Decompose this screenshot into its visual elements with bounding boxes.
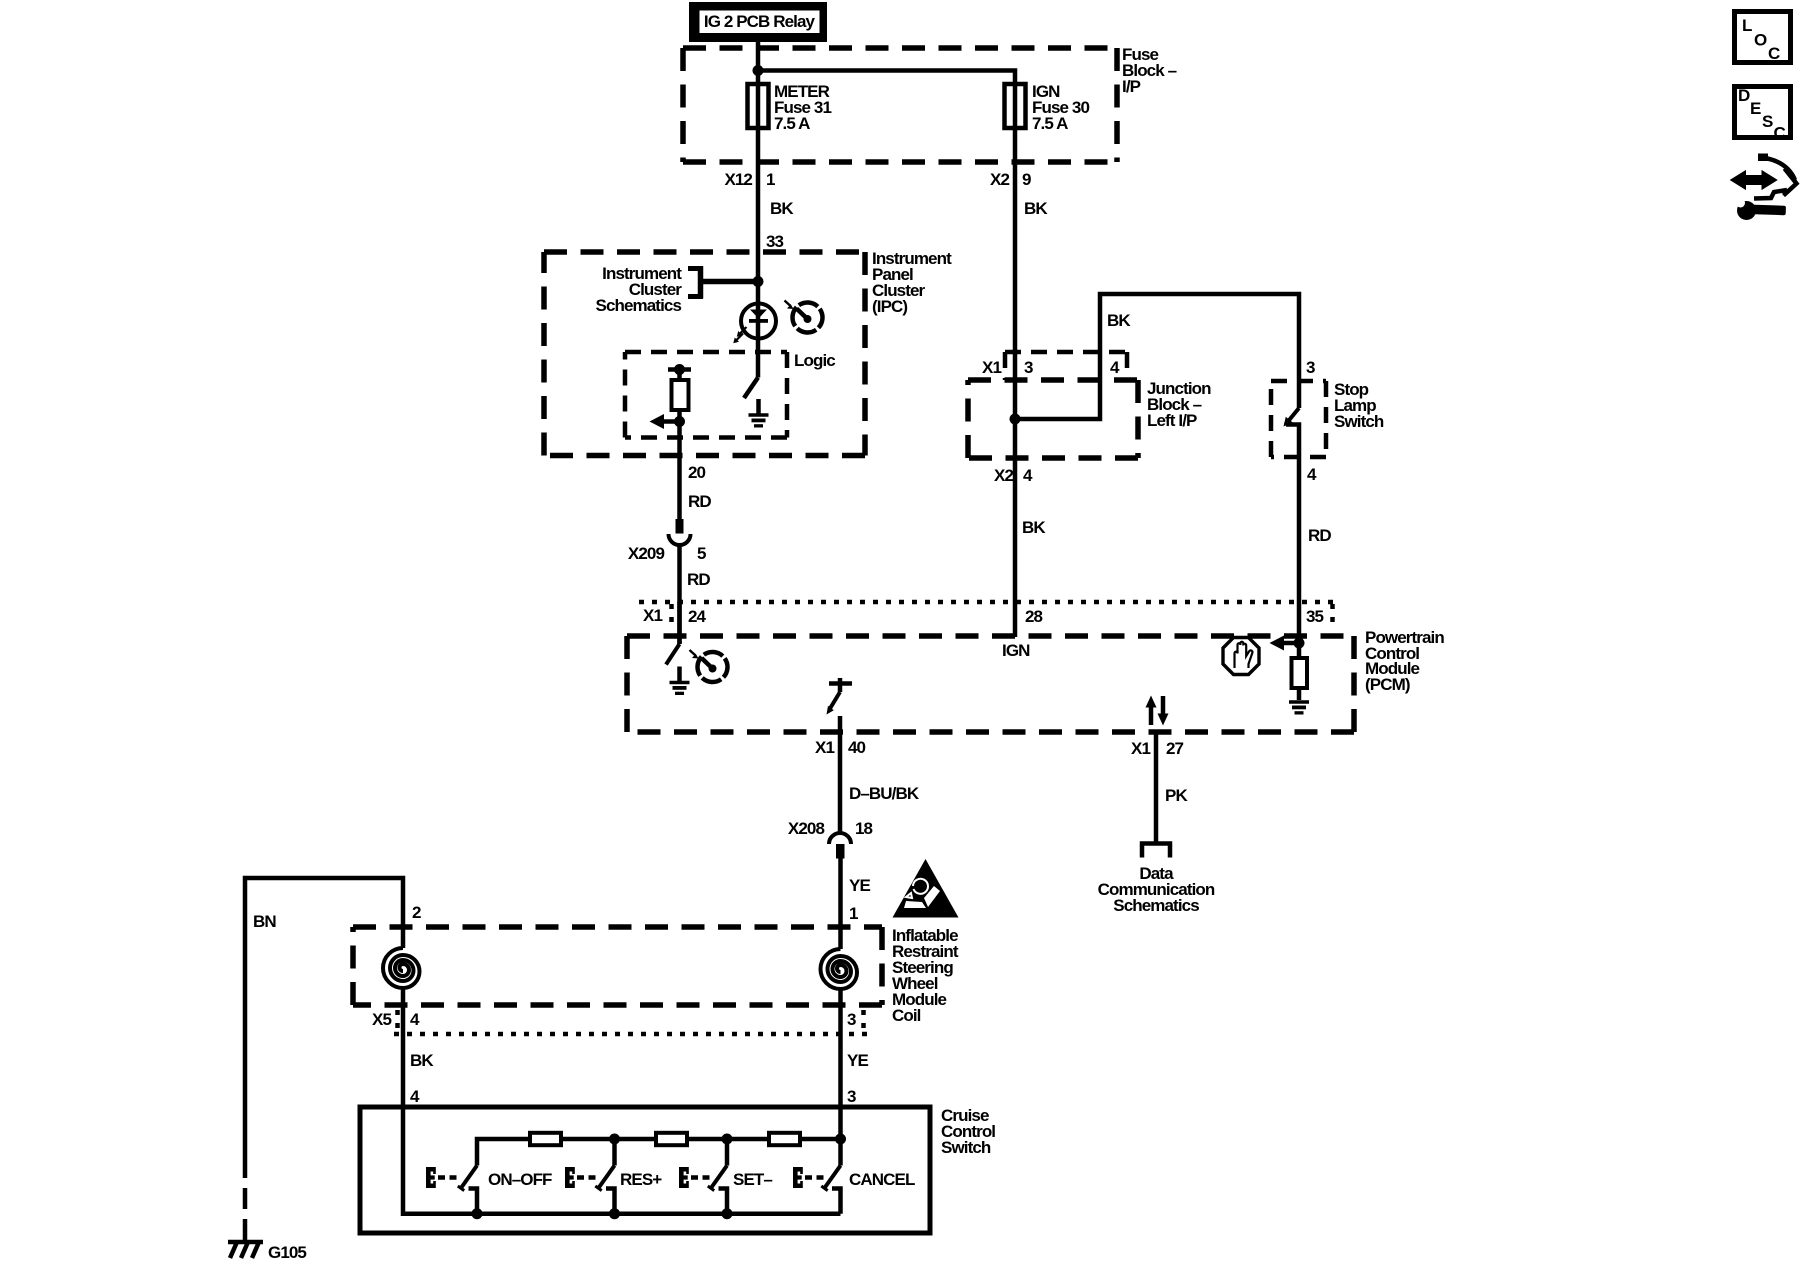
PCM left ground: [670, 681, 690, 695]
svg-text:BK: BK: [770, 199, 794, 218]
Fuse Block - I/P dashed box: [683, 48, 1117, 162]
svg-text:9: 9: [1022, 170, 1031, 189]
node ON-OFF bus: [472, 1208, 483, 1219]
wire relay to junction: [756, 42, 761, 84]
svg-text:CANCEL: CANCEL: [849, 1170, 915, 1189]
fuse METER Fuse 31: [748, 84, 769, 128]
node SET- bus: [722, 1208, 733, 1219]
Fuse Block - I/P label: [1122, 45, 1177, 96]
svg-text:L: L: [1742, 16, 1752, 35]
svg-text:Left I/P: Left I/P: [1147, 411, 1197, 430]
pin X2 4 labels: [994, 466, 1033, 485]
Data Communication Schematics label: [1098, 864, 1215, 915]
wire stop lamp to PCM pin 35: [1297, 457, 1302, 644]
connector X209: [669, 519, 691, 545]
node bus SET-: [722, 1134, 733, 1145]
wire coil left down: [401, 988, 406, 1107]
Junction Block label: [1147, 379, 1211, 430]
Instrument Panel Cluster (IPC) dashed box: [544, 252, 865, 456]
switch CANCEL: [793, 1139, 841, 1214]
node bus CANCEL: [835, 1134, 846, 1145]
logic output arrow: [650, 414, 680, 429]
PCM connector pin row: [639, 602, 1339, 629]
wire coil right down: [838, 989, 843, 1139]
svg-text:X1: X1: [982, 358, 1001, 377]
svg-text:X1: X1: [815, 738, 834, 757]
pin X12 1 labels: [724, 170, 775, 189]
svg-text:RD: RD: [688, 492, 711, 511]
node RES+ bus: [609, 1208, 620, 1219]
pin X1 27 labels: [1131, 739, 1184, 758]
node fuse feed junction: [753, 65, 764, 76]
svg-text:Schematics: Schematics: [596, 296, 682, 315]
Instrument Cluster Schematics label: [596, 264, 683, 315]
airbag warning triangle: [893, 859, 959, 918]
svg-text:I/P: I/P: [1122, 77, 1141, 96]
stop lamp switch blade: [1284, 381, 1300, 457]
wrench icon: [1736, 199, 1786, 221]
switch SET-: [679, 1139, 727, 1214]
svg-text:4: 4: [410, 1087, 420, 1106]
coil left: [383, 948, 420, 988]
svg-text:C: C: [1774, 124, 1786, 143]
svg-text:SET–: SET–: [733, 1170, 772, 1189]
svg-text:PK: PK: [1165, 786, 1188, 805]
off-page bracket: [1142, 844, 1170, 858]
wire PCM pin 40 to X208: [838, 716, 843, 832]
X208 18 labels: [788, 819, 873, 838]
IG 2 PCB Relay title box: [689, 2, 827, 42]
svg-text:4: 4: [410, 1010, 420, 1029]
Stop Lamp Switch dashed box: [1271, 381, 1326, 457]
svg-text:O: O: [1754, 31, 1767, 50]
svg-text:X2: X2: [994, 466, 1013, 485]
svg-text:2: 2: [412, 903, 421, 922]
junction block X1 connector dashed box: [1005, 352, 1127, 380]
wire junction to IGN fuse: [758, 71, 1015, 85]
PCM label: [1365, 628, 1444, 694]
wire junction tap to stop lamp switch: [1015, 294, 1299, 419]
X209 5 labels: [628, 544, 706, 563]
pin X1 24 labels: [643, 606, 707, 626]
wire IGN fuse down to PCM pin 28: [1013, 128, 1018, 637]
svg-text:S: S: [1762, 112, 1773, 131]
svg-text:C: C: [1768, 44, 1780, 63]
svg-text:1: 1: [849, 904, 858, 923]
svg-text:BK: BK: [410, 1051, 434, 1070]
coil right: [821, 949, 858, 989]
hand-off icon: [1223, 638, 1259, 675]
svg-text:3: 3: [847, 1010, 856, 1029]
svg-text:18: 18: [855, 819, 873, 838]
pin X1 3 4 labels: [982, 358, 1120, 377]
svg-text:D–BU/BK: D–BU/BK: [849, 784, 920, 803]
Inflatable Restraint label: [892, 926, 959, 1025]
node junction block tap: [1010, 414, 1021, 425]
fuse IGN Fuse 30: [1005, 84, 1026, 128]
X5 connector row: [394, 1010, 868, 1034]
data comm arrows: [1146, 696, 1169, 726]
svg-text:ON–OFF: ON–OFF: [488, 1170, 552, 1189]
svg-text:Schematics: Schematics: [1113, 896, 1199, 915]
wire X209 to PCM pin 24: [677, 545, 682, 644]
wire cruise ground bus: [403, 1107, 841, 1214]
wire PCM pin 27 down: [1154, 732, 1159, 843]
svg-text:7.5 A: 7.5 A: [1032, 114, 1068, 133]
svg-text:RD: RD: [1308, 526, 1331, 545]
svg-text:3: 3: [1306, 358, 1315, 377]
svg-text:X1: X1: [1131, 739, 1150, 758]
resistor cruise R1: [530, 1133, 561, 1145]
wire METER fuse down to IPC: [756, 128, 761, 303]
Powertrain Control Module dashed box: [627, 636, 1354, 732]
DESC nav box: [1735, 86, 1791, 143]
svg-text:5: 5: [697, 544, 706, 563]
svg-text:YE: YE: [849, 876, 870, 895]
svg-text:Coil: Coil: [892, 1006, 921, 1025]
svg-text:40: 40: [848, 738, 866, 757]
Stop Lamp Switch label: [1334, 380, 1384, 431]
svg-text:24: 24: [688, 607, 707, 626]
svg-text:E: E: [1750, 99, 1761, 118]
Logic dashed box: [625, 352, 787, 438]
wire X208 to coil: [838, 859, 843, 950]
wire bracket to LED wire: [703, 279, 758, 285]
svg-text:4: 4: [1110, 358, 1120, 377]
svg-text:4: 4: [1023, 466, 1033, 485]
svg-text:1: 1: [766, 170, 775, 189]
svg-text:BK: BK: [1024, 199, 1048, 218]
PCM right arrow: [1270, 636, 1300, 651]
svg-text:27: 27: [1166, 739, 1184, 758]
IPC gauge icon: [785, 297, 829, 339]
PCM right node: [1294, 638, 1305, 649]
bracket to schematics reference: [688, 266, 703, 299]
chassis ground G105: [228, 1242, 263, 1258]
wire BN dashed to ground: [243, 1157, 248, 1240]
connector X208: [829, 833, 851, 859]
pin X5 4 labels: [372, 1010, 420, 1029]
switch ON-OFF: [426, 1166, 477, 1214]
IPC logic switch: [744, 378, 759, 414]
svg-text:IGN: IGN: [1002, 641, 1030, 660]
IGN fuse label: [1032, 82, 1089, 133]
LED light arrows: [733, 327, 746, 343]
svg-text:RES+: RES+: [620, 1170, 662, 1189]
svg-text:X208: X208: [788, 819, 825, 838]
svg-text:(PCM): (PCM): [1365, 675, 1410, 694]
svg-text:Switch: Switch: [941, 1138, 991, 1157]
svg-text:7.5 A: 7.5 A: [774, 114, 810, 133]
IPC label: [872, 249, 952, 316]
svg-text:3: 3: [847, 1087, 856, 1106]
svg-text:YE: YE: [847, 1051, 868, 1070]
svg-text:X209: X209: [628, 544, 665, 563]
svg-text:(IPC): (IPC): [872, 297, 907, 316]
svg-text:X12: X12: [724, 170, 752, 189]
svg-text:X1: X1: [643, 606, 662, 625]
Cruise Control Switch label: [941, 1106, 995, 1157]
svg-text:IG 2 PCB Relay: IG 2 PCB Relay: [704, 12, 816, 31]
wire resistor down through IPC: [677, 410, 682, 519]
svg-text:33: 33: [766, 232, 784, 251]
svg-text:D: D: [1738, 86, 1750, 105]
PCM left input switch: [666, 602, 680, 681]
IPC ground: [749, 413, 769, 427]
svg-text:Switch: Switch: [1334, 412, 1384, 431]
resistor in logic box: [672, 380, 689, 410]
indicator LED symbol: [741, 303, 776, 378]
resistor cruise R3: [769, 1133, 800, 1145]
pin X2 9 labels: [990, 170, 1031, 189]
svg-text:RD: RD: [687, 570, 710, 589]
svg-text:BK: BK: [1022, 518, 1046, 537]
svg-text:X2: X2: [990, 170, 1009, 189]
svg-text:20: 20: [688, 463, 706, 482]
sensor top bar: [668, 364, 691, 380]
switch RES+: [565, 1139, 615, 1214]
svg-text:28: 28: [1025, 607, 1043, 626]
hotlink jump icon: [1734, 154, 1797, 199]
svg-text:BN: BN: [253, 912, 276, 931]
svg-text:X5: X5: [372, 1010, 391, 1029]
node logic output junction: [674, 416, 685, 427]
svg-text:Logic: Logic: [794, 351, 835, 370]
PCM pull resistor: [1292, 643, 1308, 700]
node bus RES+: [609, 1134, 620, 1145]
PCM gauge icon: [690, 646, 734, 688]
wire cruise signal bus: [477, 1139, 841, 1166]
wire BN top run: [245, 878, 403, 1157]
svg-text:35: 35: [1306, 607, 1324, 626]
node IPC feed junction: [753, 276, 764, 287]
svg-text:G105: G105: [268, 1243, 306, 1262]
Cruise Control Switch box: [360, 1107, 930, 1233]
svg-text:4: 4: [1307, 465, 1317, 484]
PCM cruise request switch: [827, 678, 853, 715]
PCM right ground: [1289, 700, 1309, 714]
Inflatable Restraint coil dashed box: [353, 927, 882, 1005]
resistor cruise R2: [656, 1133, 687, 1145]
LOC nav box: [1735, 12, 1791, 64]
Junction Block dashed box: [968, 380, 1138, 458]
svg-text:BK: BK: [1107, 311, 1131, 330]
pin X1 40 labels: [815, 738, 866, 757]
METER fuse label: [774, 82, 831, 133]
svg-text:3: 3: [1024, 358, 1033, 377]
